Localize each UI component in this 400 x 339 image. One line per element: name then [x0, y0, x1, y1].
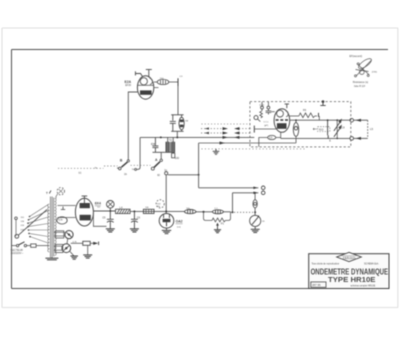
- plug-in coil L5 wires: [354, 120, 368, 138]
- tube V2 cathode oval 0.5: [268, 135, 276, 139]
- 6X4 anode plate 1: [80, 203, 90, 208]
- title block number box: [311, 282, 326, 287]
- switch B front contact: [135, 168, 137, 170]
- svg-text:110: 110: [21, 217, 25, 219]
- title block box: [309, 254, 389, 289]
- svg-text:C8: C8: [342, 126, 346, 129]
- parallel RC combo C4a / R2 top node: [171, 114, 183, 116]
- tube V1 anode inner circle: [140, 78, 147, 85]
- grid resistor/cap combo left of V2: terminals: [261, 106, 264, 109]
- svg-text:T: T: [46, 191, 48, 195]
- wires transformer to 6X4 plates: [58, 205, 76, 207]
- svg-text:287 95: 287 95: [312, 283, 321, 287]
- svg-text:0,5: 0,5: [269, 137, 273, 140]
- svg-text:110/220V∼: 110/220V∼: [11, 251, 25, 255]
- dotted bus to meter branch: [231, 211, 253, 213]
- ground under C5: [106, 229, 115, 232]
- svg-text:6X4: 6X4: [95, 202, 101, 206]
- svg-text:813: 813: [319, 127, 324, 131]
- svg-text:100: 100: [175, 156, 180, 160]
- switch A lever: [154, 162, 160, 168]
- variable capacitor C8: [328, 120, 342, 136]
- jack circle at enclosure left: [254, 116, 258, 120]
- output terminal high: [350, 118, 354, 122]
- test point wire 2: [233, 192, 259, 194]
- coupling row 1 (dotted): [202, 123, 250, 125]
- junction dot bus/P1: [202, 211, 204, 213]
- svg-text:130: 130: [21, 221, 25, 223]
- tube V1 grid stub right: [154, 87, 159, 89]
- test point wire 1: [199, 187, 259, 189]
- resistor R8 oval on bus: [212, 210, 223, 214]
- wire resistor junction to ground: [87, 245, 89, 254]
- power transformer Tr core: [50, 197, 53, 258]
- svg-text:60: 60: [157, 174, 160, 177]
- output high line: [290, 119, 350, 121]
- tube V2 inner circle 2: [286, 111, 289, 117]
- ground under meter: [251, 229, 260, 232]
- svg-text:(pF): (pF): [264, 125, 268, 127]
- Ferisol diamond logo: [337, 252, 362, 261]
- tube V1 cathode dark block: [140, 90, 152, 94]
- ground under lamp 2: [70, 256, 78, 259]
- capacitor T-bar on enclosure top: [320, 101, 325, 106]
- junction node dots on grid bus: [160, 136, 162, 138]
- mains lead to frame: [12, 245, 16, 247]
- svg-text:L5: L5: [370, 127, 374, 131]
- heater lamp 1 shield box: [55, 231, 63, 238]
- tube V2 envelope: [274, 109, 290, 133]
- svg-text:R9: R9: [303, 109, 307, 112]
- wire V1 cathode left and down: [128, 92, 137, 160]
- svg-text:B: B: [120, 158, 123, 162]
- svg-text:1.C.L: 1.C.L: [263, 121, 269, 123]
- tube V2 inner circle 1: [277, 110, 284, 117]
- svg-text:Résistance (s): Résistance (s): [353, 81, 368, 84]
- junction OA2 top: [165, 210, 167, 212]
- resistor R10 vertical oval: [293, 120, 298, 136]
- svg-text:C5: C5: [102, 216, 106, 220]
- 6X4 top pin: [82, 196, 88, 203]
- wire bar down to output high line: [318, 116, 320, 120]
- arrow to test point 2: [253, 192, 257, 195]
- svg-text:C3: C3: [180, 76, 184, 78]
- svg-text:10k: 10k: [145, 207, 149, 209]
- wire V2 bottom to output low line: [280, 137, 282, 140]
- wire lamp2 to ground: [70, 252, 74, 256]
- wire grid bus left end down to switch B front contact: [137, 137, 140, 169]
- RC combo bottom node: [171, 130, 183, 132]
- resistor R7 oval on bus: [185, 210, 196, 214]
- trimmer label box: [318, 127, 330, 132]
- wire V2 bottom pin: [276, 132, 281, 137]
- wire R1 to corner terminal: [169, 81, 178, 83]
- svg-text:L4: L4: [120, 205, 123, 209]
- svg-text:(230): (230): [372, 72, 377, 74]
- switch A front contact 1g: [165, 172, 168, 175]
- svg-text:E: E: [329, 140, 331, 143]
- wire lamp to secondary: [56, 194, 58, 199]
- test point terminal 2: [261, 191, 265, 195]
- bias resistor wire: [71, 242, 83, 244]
- transformer secondary winding bumps (right): [55, 199, 57, 256]
- svg-text:(c): (c): [79, 171, 82, 174]
- wire switch A down to OA2: [165, 175, 167, 214]
- svg-text:Tous droits de reproduction: Tous droits de reproduction: [312, 262, 340, 265]
- output terminal low: [350, 137, 354, 141]
- resistor R1 150 (oval): [157, 79, 169, 84]
- meter M: [250, 212, 261, 226]
- svg-text:m: m: [262, 220, 264, 223]
- svg-text:(=): (=): [97, 207, 100, 209]
- arrow to test point 1: [253, 187, 257, 190]
- svg-text:C6: C6: [137, 216, 141, 220]
- svg-text:OA2: OA2: [176, 220, 183, 224]
- svg-text:(vs): (vs): [177, 227, 181, 229]
- ground under C6: [130, 229, 139, 232]
- dashed unit enclosure: [250, 102, 351, 147]
- tube V1 top pin: [146, 70, 152, 78]
- heater voltage oval 6,3v: [57, 217, 67, 224]
- input terminal bar on grid bus: [253, 126, 255, 133]
- heater lamp 1: [65, 231, 73, 239]
- svg-text:C10: C10: [260, 104, 265, 107]
- switch B lever: [121, 162, 127, 167]
- resistor R3 100 under T2: [172, 151, 174, 154]
- wire OA2 to ground: [166, 228, 168, 230]
- svg-text:T2: T2: [169, 138, 173, 142]
- selector wiper arm: [15, 234, 19, 238]
- wire row 5 solid to R9 bottom: [199, 137, 296, 145]
- output low line: [281, 137, 350, 139]
- tube V1 grid line through envelope: [138, 84, 154, 86]
- heater lamp 2 shield box: [55, 244, 63, 252]
- tube V2 cathode dark block: [277, 123, 287, 129]
- filter choke L4 (hatched box): [116, 209, 131, 213]
- tube V2 grid dashes: [276, 119, 288, 121]
- resistor R2 (right branch, oval vertical): [179, 115, 184, 132]
- fuse oval above meter: [253, 193, 257, 213]
- selector contact dots: [27, 216, 31, 238]
- wire meter to ground: [254, 227, 256, 230]
- meter branch junction: [254, 211, 256, 213]
- grid bus arrows into unit (row 4): [223, 136, 251, 139]
- test point terminal 1: [261, 186, 265, 190]
- svg-text:schéma complet HR10E: schéma complet HR10E: [351, 285, 376, 288]
- svg-text:1b: 1b: [124, 172, 127, 176]
- bias resistor box: [83, 241, 90, 245]
- svg-text:Hz: Hz: [157, 206, 160, 208]
- anode wire with R9 zigzag: [290, 113, 317, 118]
- mechanical link dashed line to range switch: [58, 165, 151, 168]
- svg-text:TYPE HR10E: TYPE HR10E: [328, 275, 376, 284]
- coupling cap bar after R9: [318, 113, 320, 117]
- plug arrows: [356, 119, 362, 122]
- combo resistor diagonal: [260, 109, 263, 118]
- svg-text:SCHEMA Ech.: SCHEMA Ech.: [364, 262, 379, 265]
- wire V1 anode right: [154, 81, 157, 83]
- riser wire x=198.6: [198, 143, 200, 188]
- svg-text:A: A: [155, 158, 158, 162]
- mains fuse box: [27, 245, 31, 247]
- HT bus wire: [94, 210, 131, 212]
- tube V1 grid cap terminal: [135, 71, 142, 76]
- secondary centre-tap mark: [61, 207, 65, 210]
- small terminal circle left: [15, 217, 18, 220]
- heater lamp 2: [62, 244, 71, 253]
- svg-text:C4: C4: [151, 142, 155, 146]
- coupling row 3 (dotted with arrows): [201, 132, 252, 135]
- switch B top contact: [127, 160, 129, 162]
- oscillator dashed circle: [156, 200, 164, 208]
- capacitor C4a (left branch): [170, 115, 176, 132]
- 6X4 anode plate 2: [80, 215, 91, 221]
- voltage selector fan taps: [28, 205, 48, 244]
- svg-text:P1: P1: [221, 221, 225, 225]
- P1 wiper arrow: [217, 225, 219, 230]
- OA2 inner electrode: [163, 219, 171, 222]
- drawing frame: [12, 50, 390, 289]
- svg-text:EF(raccord): EF(raccord): [349, 55, 362, 58]
- coupling row 6 (dotted): [202, 148, 307, 150]
- wire T2 bottom to switch A top contact: [160, 152, 162, 159]
- coil L5 body: [367, 120, 369, 138]
- ground under bias resistor: [83, 255, 92, 258]
- ground on row 6: [213, 149, 220, 154]
- wire input bar to tube V2: [255, 128, 277, 130]
- dial lamp dashed circle: [57, 188, 64, 195]
- transformer chassis ground bottom: [45, 258, 58, 260]
- cap bar on output low line: [327, 135, 329, 138]
- coupling row 2 (dotted with arrows): [201, 127, 252, 130]
- ground under P1 wiper: [214, 230, 221, 233]
- 6X4 cathode side wire: [93, 211, 106, 226]
- +HT output arrow: [90, 242, 93, 244]
- grid bus horizontal wire: [140, 136, 254, 138]
- variable capacitor C9: [334, 126, 341, 137]
- potentiometer P1 loop: [204, 212, 213, 221]
- svg-text:1M: 1M: [185, 121, 188, 123]
- filter capacitor C6: [133, 210, 135, 212]
- wire cathode oval left then down: [259, 138, 268, 147]
- tube V1 second inner circle: [150, 78, 153, 84]
- transformer primary winding bumps (left): [48, 204, 50, 252]
- svg-text:EF39: EF39: [125, 84, 131, 87]
- mains switch: [16, 244, 18, 246]
- R2 inner bands: [180, 120, 184, 128]
- C4/T2 bottom wire: [153, 151, 176, 153]
- wire C8/C9 join vertical: [336, 120, 338, 138]
- svg-text:220: 220: [21, 225, 25, 227]
- switch B rear contact: [119, 167, 122, 170]
- wire down from terminal to C4/R2 combo: [177, 86, 179, 115]
- indicator circle +150V after rectifier: [107, 201, 115, 212]
- switch A top contact: [160, 159, 162, 161]
- tube V1 E2A envelope: [137, 76, 153, 99]
- stubs terminals to enclosure top: [261, 102, 263, 107]
- wire lamp1 to lamp2: [66, 239, 69, 244]
- OA2 top pins: [164, 215, 170, 218]
- wire test point 2 down to HT bus: [232, 193, 234, 213]
- tube V2 top pin: [285, 104, 289, 108]
- filter capacitor C5: [107, 211, 114, 229]
- wire combo to grid bus: [176, 131, 178, 137]
- svg-text:fuite R 10²: fuite R 10²: [354, 85, 365, 88]
- switch A rear contact: [151, 167, 154, 170]
- terminal bar node: [177, 78, 179, 86]
- svg-text:6,3v: 6,3v: [58, 218, 63, 221]
- tube OA2 envelope: [159, 214, 174, 229]
- tube socket sketch: [355, 57, 373, 77]
- rectifier tube 6X4 envelope: [75, 198, 93, 226]
- ground under OA2: [162, 230, 171, 233]
- wire switch A to riser: [168, 174, 199, 176]
- resistor R6 (box on bus): [143, 209, 154, 213]
- combo capacitor bars: [266, 109, 272, 115]
- combo link to tube: [271, 111, 275, 113]
